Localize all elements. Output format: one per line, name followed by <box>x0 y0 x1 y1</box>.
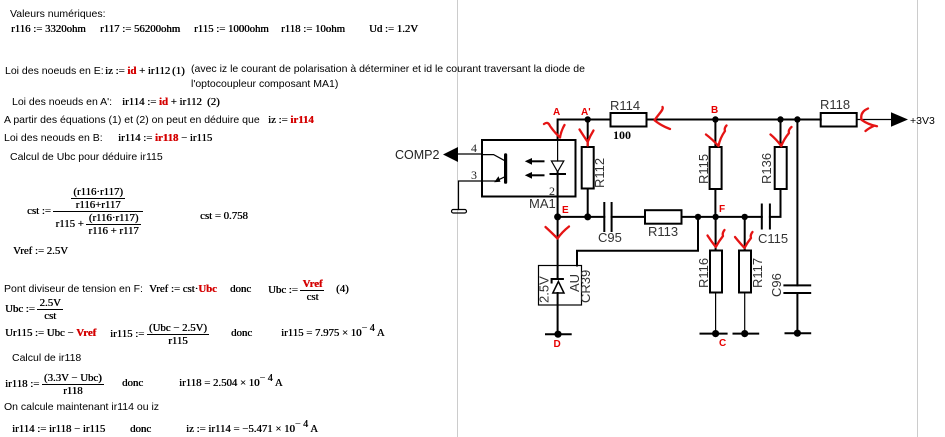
red arrow on R116 <box>708 230 725 247</box>
svg-text:B: B <box>711 105 718 116</box>
pin 3 wire <box>459 168 483 210</box>
wire R114 to B to R118 <box>647 119 821 121</box>
svg-text:100: 100 <box>613 128 631 142</box>
svg-text:R118: R118 <box>820 97 850 112</box>
svg-text:R113: R113 <box>648 224 678 239</box>
svg-text:R136: R136 <box>759 153 774 184</box>
earth ground at pin3 <box>452 210 467 214</box>
wire R113 to F <box>682 216 762 218</box>
zener diode symbol <box>551 217 564 334</box>
cst big fraction block, centered at y=211 <box>27 183 143 239</box>
phototransistor of MA1 <box>482 153 507 184</box>
svg-text:4: 4 <box>471 141 477 155</box>
light arrows of MA1 <box>525 158 545 179</box>
svg-text:C96: C96 <box>769 273 784 297</box>
svg-text:R112: R112 <box>592 158 607 188</box>
ground R117 <box>734 330 759 337</box>
tap wire R113 junction to CR39 <box>577 217 698 266</box>
wire top rail A to R114 <box>558 120 611 141</box>
svg-text:E: E <box>562 205 569 216</box>
optocoupler MA1 box <box>482 140 576 211</box>
resistor R115 <box>696 120 722 217</box>
zener CR39 box <box>537 266 594 306</box>
resistor R113 <box>645 210 682 239</box>
red arrow on A wire <box>544 123 565 138</box>
label B <box>711 105 718 116</box>
wire E row <box>558 216 605 218</box>
ground C96 <box>786 330 811 337</box>
capacitor C115 <box>758 205 788 247</box>
node at C96 top <box>794 116 800 122</box>
capacitor C95 <box>598 203 622 245</box>
node B <box>712 116 718 122</box>
COMP2 port <box>395 147 458 162</box>
svg-text:2: 2 <box>549 184 555 198</box>
node E <box>554 205 569 220</box>
svg-text:D: D <box>554 339 561 350</box>
svg-text:C115: C115 <box>758 231 788 246</box>
resistor R136 <box>759 120 787 190</box>
resistor R118 <box>820 97 857 127</box>
node at R136 top <box>777 116 783 122</box>
ground C (R116) <box>701 330 727 349</box>
svg-text:F: F <box>719 204 725 215</box>
resistor R116 <box>696 217 722 334</box>
svg-text:C: C <box>719 338 726 349</box>
svg-text:R117: R117 <box>750 258 765 288</box>
node A' <box>585 116 591 122</box>
label A' <box>581 107 591 118</box>
svg-text:+3V3: +3V3 <box>910 115 935 127</box>
node R112-E junction <box>584 213 591 220</box>
red arrow on R115 <box>706 126 727 147</box>
red arrow on R136 <box>771 127 792 146</box>
wire R118 to +3V3 <box>857 119 891 121</box>
svg-text:CR39: CR39 <box>578 270 593 303</box>
svg-text:R115: R115 <box>696 154 711 184</box>
resistor R114 <box>610 98 647 142</box>
red arrow below E <box>546 227 570 239</box>
svg-text:COMP2: COMP2 <box>395 148 440 162</box>
page margin guides <box>457 0 458 437</box>
node F <box>712 204 725 220</box>
red arrow on R112 wire <box>580 130 594 146</box>
svg-text:A': A' <box>581 107 591 118</box>
label A <box>553 107 560 118</box>
node after R113 <box>695 214 701 220</box>
resistor R117 <box>739 217 765 334</box>
red arrow on rail near B <box>655 107 671 129</box>
svg-text:R114: R114 <box>610 98 640 113</box>
+3V3 port <box>891 112 935 127</box>
capacitor C96 <box>769 120 810 334</box>
svg-text:MA1: MA1 <box>529 196 556 211</box>
svg-text:C95: C95 <box>598 230 622 245</box>
wire C115 to R136 <box>770 189 781 217</box>
ground D <box>546 331 571 350</box>
red arrow after R118 <box>861 109 877 132</box>
svg-text:2.5V: 2.5V <box>537 276 552 303</box>
red arrow on R117 <box>735 232 753 248</box>
pin 4 wire <box>458 141 482 155</box>
node R117 top <box>742 214 748 220</box>
svg-text:3: 3 <box>471 168 477 182</box>
resistor R112 <box>582 120 607 217</box>
LED of MA1 <box>549 140 565 217</box>
wire C95 to R113 <box>612 216 645 218</box>
svg-text:A: A <box>553 107 560 118</box>
svg-text:R116: R116 <box>696 258 711 288</box>
